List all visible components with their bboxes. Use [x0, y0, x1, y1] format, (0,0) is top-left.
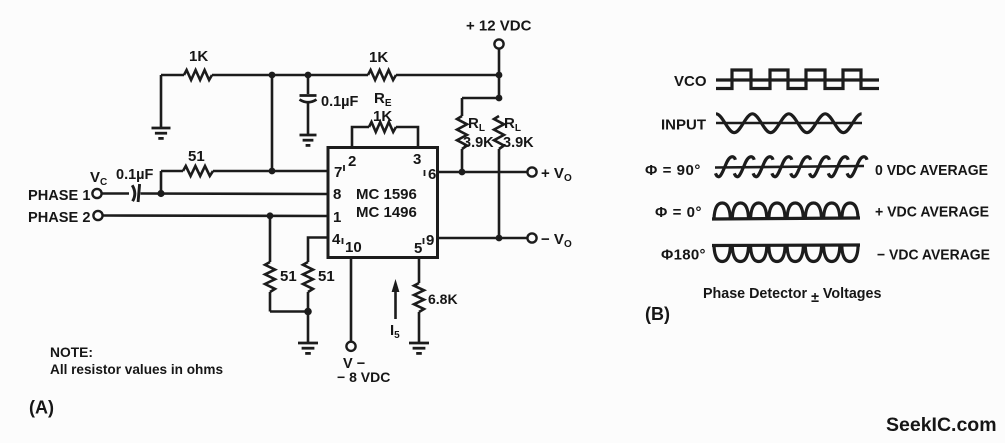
supply terminal V-: [346, 342, 355, 351]
wire: top bias bus y=75: [161, 74, 499, 77]
svg-text:0.1µF: 0.1µF: [116, 167, 154, 183]
svg-text:− VO: − VO: [541, 231, 572, 250]
svg-text:3.9K: 3.9K: [503, 135, 534, 151]
svg-text:1: 1: [333, 209, 341, 226]
output terminal +Vo: [527, 167, 536, 176]
node: junction RL bracket: [496, 95, 503, 102]
wire: left drop to ground: [160, 75, 163, 128]
waveform phi=0 baseline: [712, 218, 860, 219]
svg-text:RL: RL: [504, 115, 521, 134]
wire: phase1 line to pin 8: [141, 192, 329, 195]
node: junction RL1/pin6: [459, 169, 466, 176]
svg-text:0.1µF: 0.1µF: [321, 94, 359, 110]
waveform INPUT centerline: [716, 122, 862, 125]
svg-text:8: 8: [333, 186, 341, 203]
svg-text:2: 2: [348, 153, 356, 170]
svg-text:+ VO: + VO: [541, 165, 572, 184]
svg-text:− VDC AVERAGE: − VDC AVERAGE: [877, 247, 990, 264]
svg-text:0 VDC AVERAGE: 0 VDC AVERAGE: [875, 162, 988, 179]
waveform INPUT sine: [716, 114, 862, 133]
resistor RE 1K bracket pins 2-3: [352, 127, 418, 148]
svg-text:− 8 VDC: − 8 VDC: [337, 369, 390, 385]
svg-text:PHASE 2: PHASE 2: [28, 210, 90, 226]
wire: pin10 to V- terminal: [350, 258, 353, 342]
wire: vertical x=272 to pin7 line: [271, 75, 274, 171]
node: junction at ground drop: [304, 308, 312, 316]
svg-text:NOTE:: NOTE:: [50, 345, 93, 360]
ground G4: [409, 342, 429, 345]
resistor R4 51 (left vertical): [269, 216, 272, 262]
capacitor C2 0.1uF series: [102, 192, 129, 195]
ground G3: [298, 342, 318, 345]
waveform VCO centerline: [716, 78, 879, 81]
svg-text:+ VDC AVERAGE: + VDC AVERAGE: [875, 204, 989, 221]
node: junction top bus / C1: [305, 72, 312, 79]
svg-text:MC 1496: MC 1496: [356, 204, 417, 221]
svg-text:7: 7: [334, 164, 342, 181]
waveform VCO square wave: [716, 70, 879, 89]
waveform phi180 baseline: [712, 243, 860, 247]
resistor R5 51 (right vertical): [303, 262, 313, 292]
current arrow I5: [394, 288, 397, 319]
svg-text:5: 5: [414, 240, 422, 257]
svg-text:6.8K: 6.8K: [428, 291, 458, 307]
svg-text:3.9K: 3.9K: [463, 135, 494, 151]
output terminal -Vo: [527, 233, 536, 242]
svg-text:1K: 1K: [189, 48, 208, 65]
svg-text:Φ180°: Φ180°: [661, 247, 706, 264]
svg-text:10: 10: [345, 239, 362, 256]
wire: phase2 line to pin 1: [103, 214, 328, 217]
svg-text:VC: VC: [90, 169, 107, 188]
svg-text:(B): (B): [645, 304, 670, 324]
wire: pin9 output line: [437, 237, 527, 240]
resistor R6 6.8K on pin 5: [418, 258, 421, 284]
svg-text:VCO: VCO: [674, 73, 707, 90]
svg-text:RL: RL: [468, 115, 485, 134]
svg-text:51: 51: [318, 268, 335, 285]
svg-text:51: 51: [188, 148, 205, 165]
capacitor C1 0.1uF to ground: [307, 75, 310, 94]
node: junction phase1/Vc: [157, 190, 164, 197]
svg-text:INPUT: INPUT: [661, 117, 706, 134]
ground G2: [300, 134, 317, 137]
ground G1: [152, 127, 171, 130]
node: junction pin7/bias: [269, 168, 276, 175]
svg-text:+ 12 VDC: + 12 VDC: [466, 18, 532, 35]
svg-text:SeekIC.com: SeekIC.com: [886, 414, 997, 436]
svg-text:Phase Detector ± Voltages: Phase Detector ± Voltages: [703, 286, 881, 306]
svg-text:3: 3: [413, 151, 421, 168]
node: junction phase2/51: [267, 212, 274, 219]
svg-text:1K: 1K: [373, 108, 392, 125]
waveform phi=90 centerline: [715, 166, 864, 168]
svg-text:4: 4: [332, 231, 341, 248]
svg-text:PHASE 1: PHASE 1: [28, 188, 90, 204]
resistor R1 1K (left top): [184, 70, 212, 80]
svg-text:Φ = 90°: Φ = 90°: [645, 162, 701, 179]
waveform phi=0 arches: [714, 203, 858, 219]
wire: stub Vc junction up to 51 line: [160, 171, 163, 194]
svg-text:RE: RE: [374, 90, 392, 109]
svg-text:51: 51: [280, 268, 297, 285]
svg-text:I5: I5: [390, 322, 400, 341]
svg-text:9: 9: [426, 232, 434, 249]
node: junction RL2/pin9: [496, 235, 503, 242]
wire: pin7 line with 51 ohm resistor R3: [161, 170, 328, 173]
node: junction +12V bus: [496, 72, 503, 79]
svg-text:6: 6: [428, 166, 436, 183]
resistor RL1 3.9K: [461, 98, 464, 116]
svg-text:MC 1596: MC 1596: [356, 186, 417, 203]
resistor R3 51: [183, 166, 213, 176]
svg-text:All resistor values in ohms: All resistor values in ohms: [50, 362, 223, 377]
svg-text:1K: 1K: [369, 49, 388, 66]
svg-text:Φ = 0°: Φ = 0°: [655, 204, 702, 221]
node: junction top bus / pin7 branch: [269, 72, 276, 79]
op IC U1 MC1596/MC1496 box: [328, 148, 438, 258]
wire: pin4 to R5: [308, 238, 328, 263]
resistor R2 1K (right top): [368, 70, 396, 80]
waveform phi=90 S-chain: [716, 157, 868, 177]
svg-text:(A): (A): [29, 398, 54, 418]
wire: R4-R5 bottom join: [270, 310, 308, 313]
waveform phi180 arches: [714, 246, 858, 262]
resistor RL2 3.9K: [494, 116, 504, 149]
wire: RL bracket horizontal: [462, 97, 499, 100]
wire: pin6 output line: [437, 171, 527, 174]
